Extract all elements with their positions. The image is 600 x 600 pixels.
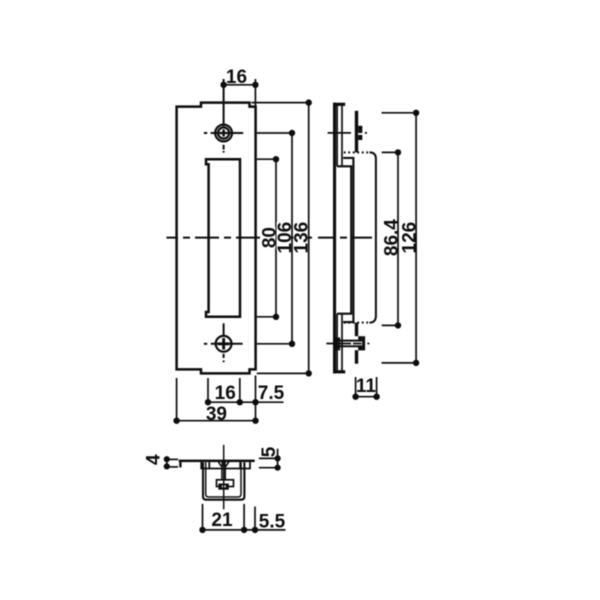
side rim box — [337, 166, 351, 313]
side plate back line upper — [336, 105, 338, 166]
dim 39 — [177, 376, 256, 424]
dim 4 — [167, 459, 178, 467]
dim 136 — [252, 103, 311, 374]
side top bracket bar — [355, 111, 358, 153]
side tab back line lower — [341, 314, 343, 371]
side plate front face — [333, 103, 336, 374]
bottom view screw shaft — [222, 465, 225, 480]
bottom view tab band — [201, 462, 250, 468]
washer lines — [336, 337, 338, 350]
svg-text:11: 11 — [356, 376, 377, 397]
recess opening front view — [206, 159, 240, 317]
bottom view plate bar — [179, 460, 255, 463]
centerline vertical top screw / ext 16 — [167, 79, 373, 362]
dim 5.5 — [244, 507, 285, 533]
bottom view countersink fan — [218, 461, 229, 467]
side top tab cap — [333, 103, 345, 106]
dim 126 — [382, 113, 418, 363]
side bottom screw centerline — [326, 343, 369, 345]
svg-text:126: 126 — [400, 222, 421, 254]
dim 80 — [257, 159, 278, 317]
side back box hidden bottom — [344, 322, 370, 324]
side plate back line lower — [336, 314, 338, 371]
svg-text:136: 136 — [292, 222, 313, 254]
side top screw boss — [358, 126, 362, 140]
bottom view left hook — [179, 462, 181, 467]
side back box solid — [370, 152, 376, 322]
side bottom screw washer bump bottom — [336, 346, 339, 349]
dim 21 — [203, 504, 245, 532]
side bottom bracket bar lower — [355, 350, 358, 364]
white slot in top boss — [358, 133, 363, 135]
dimension texts — [143, 67, 420, 532]
bottom screw hole — [216, 336, 232, 352]
svg-text:16: 16 — [226, 67, 247, 88]
plate outline front view — [177, 103, 256, 374]
svg-text:4: 4 — [143, 454, 164, 465]
side tab back line upper — [341, 105, 343, 166]
dim 11 — [356, 377, 377, 398]
side back box hidden top — [344, 151, 370, 153]
bottom view screw axis — [223, 445, 225, 509]
side top screw centerline — [328, 132, 367, 134]
svg-text:16: 16 — [215, 383, 236, 404]
bottom view cup outer — [203, 462, 244, 499]
part horizontal centerline side view — [318, 237, 372, 239]
dim 16 / 7.5 bottom of front view — [208, 378, 284, 405]
BOTTOM VIEW — [179, 460, 255, 468]
text halos — [261, 222, 308, 250]
svg-text:7.5: 7.5 — [258, 383, 285, 404]
svg-text:21: 21 — [211, 510, 233, 531]
centerline vertical bottom screw — [223, 323, 225, 336]
side bottom screw head flange — [362, 336, 365, 350]
side bottom bracket bar upper — [355, 323, 358, 337]
svg-text:5: 5 — [259, 446, 280, 457]
side bottom screw washer bump top — [336, 338, 339, 341]
shaft lines — [339, 340, 362, 342]
dim 86.4 — [382, 152, 401, 325]
dim 5 — [259, 449, 279, 468]
side bottom screw — [337, 337, 362, 350]
centerline horizontal top screw — [204, 132, 207, 134]
part horizontal centerline front view — [167, 237, 313, 239]
top screw hole — [215, 125, 232, 142]
bottom view cup inner — [206, 462, 241, 497]
side bottom screw head neck top — [358, 336, 362, 340]
side bottom screw head neck bottom — [358, 347, 362, 351]
SIDE VIEW — [333, 103, 365, 374]
centerline horizontal bottom screw — [204, 343, 207, 345]
side bottom foot cap — [333, 370, 345, 373]
dim 106 — [257, 133, 294, 344]
bottom view recess wall ticks — [208, 462, 210, 468]
side step box — [343, 158, 353, 322]
svg-text:39: 39 — [206, 404, 227, 425]
dim 16 top — [224, 79, 256, 107]
svg-text:5.5: 5.5 — [259, 511, 286, 532]
bottom view nut — [217, 480, 234, 487]
